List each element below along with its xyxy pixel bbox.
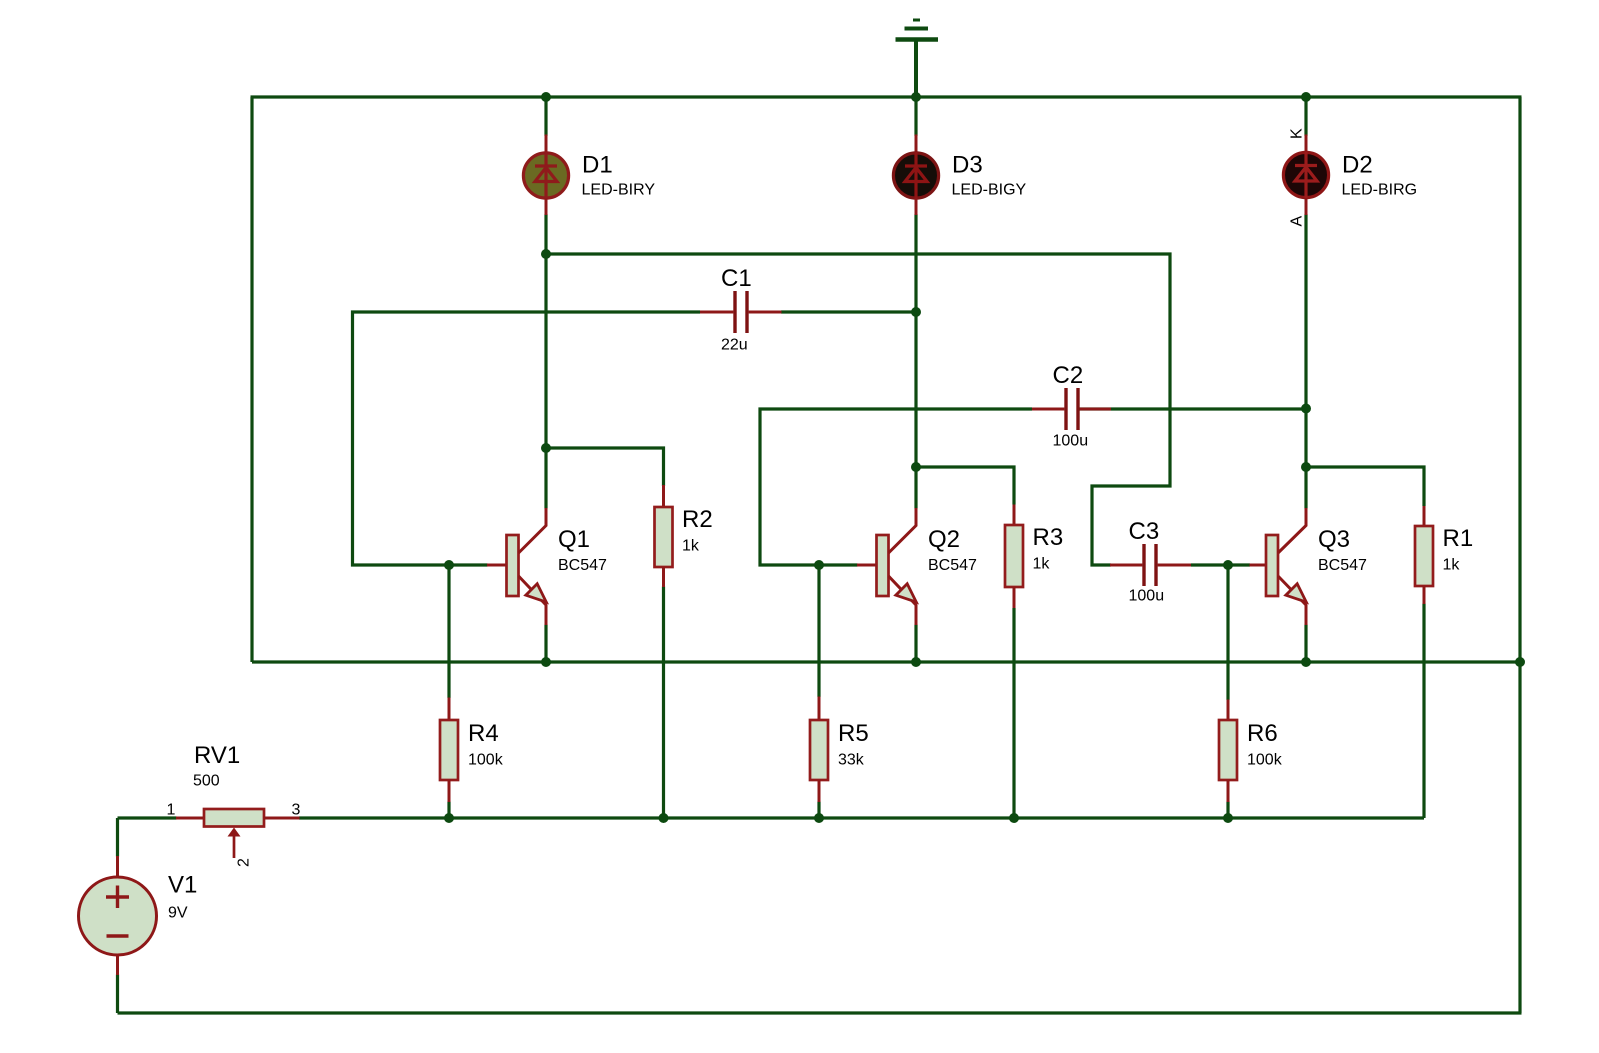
junction C2 right / Q3 collector column — [1301, 404, 1311, 414]
svg-text:K: K — [1289, 128, 1306, 139]
wire: Q3 emitter to rail — [1304, 625, 1307, 663]
svg-text:1k: 1k — [1033, 556, 1051, 573]
resistor R3 1k — [1005, 505, 1063, 609]
wire: D1 cathode down to Q1 collector — [544, 214, 547, 448]
wire: Q1 collector to R2 top — [546, 448, 664, 486]
svg-text:22u: 22u — [721, 337, 748, 354]
junction Q1 base / R4 — [444, 560, 454, 570]
svg-text:LED-BIRG: LED-BIRG — [1342, 182, 1418, 199]
wire: supply row from RV1 wiper side — [118, 816, 177, 819]
wire: C3 right to Q3 base — [1191, 563, 1250, 566]
potentiometer RV1 500 — [167, 742, 301, 867]
svg-text:Q1: Q1 — [558, 526, 590, 553]
junction Q1 emitter rail — [541, 657, 551, 667]
svg-text:R5: R5 — [838, 720, 869, 747]
resistor R1 1k — [1415, 506, 1473, 604]
junction Q3 emitter rail — [1301, 657, 1311, 667]
wire: R5 bottom to supply row — [817, 802, 820, 819]
svg-text:C3: C3 — [1129, 518, 1160, 545]
wire: C2 right to Q3 collector column — [1080, 407, 1307, 410]
svg-text:1k: 1k — [1443, 557, 1461, 574]
svg-text:9V: 9V — [168, 905, 188, 922]
svg-text:100k: 100k — [468, 752, 504, 769]
transistor Q3 — [1250, 508, 1368, 625]
junction R3 supply row — [1009, 813, 1019, 823]
svg-text:R4: R4 — [468, 720, 499, 747]
wire: right vertical from top rail down to battery return — [1518, 97, 1521, 1013]
wire: Q3 base junction down to R6 — [1226, 565, 1229, 700]
resistor R4 100k — [440, 698, 504, 803]
svg-text:R6: R6 — [1247, 720, 1278, 747]
svg-text:100u: 100u — [1053, 433, 1089, 450]
svg-text:R2: R2 — [682, 506, 713, 533]
svg-text:100k: 100k — [1247, 752, 1283, 769]
wire: Q3 collector stub — [1304, 467, 1307, 509]
svg-text:V1: V1 — [168, 872, 197, 899]
capacitor C2 100u — [1032, 362, 1111, 450]
svg-text:Q3: Q3 — [1318, 526, 1350, 553]
wire: Q1 base junction down to R4 — [447, 565, 450, 698]
svg-text:R3: R3 — [1033, 524, 1064, 551]
wire: R1 bottom down to supply row corner — [1422, 604, 1425, 819]
capacitor C1 22u — [700, 265, 782, 354]
svg-text:D2: D2 — [1342, 152, 1373, 179]
junction emitter rail / right vertical — [1515, 657, 1525, 667]
wire: D3 cathode down through C1 node to Q2 collector — [914, 214, 917, 467]
junction D1 top rail — [541, 92, 551, 102]
wire: R6 bottom to supply row — [1226, 802, 1229, 819]
svg-text:D3: D3 — [952, 152, 983, 179]
wire: emitter rail — [252, 660, 1520, 663]
junction R6 supply row — [1223, 813, 1233, 823]
junction Q3 base / C3 / R6 — [1223, 560, 1233, 570]
svg-text:C2: C2 — [1053, 362, 1084, 389]
wire: D3 anode to top rail — [914, 97, 917, 136]
junction Q1 collector / R2 — [541, 443, 551, 453]
svg-text:33k: 33k — [838, 752, 865, 769]
wire: battery minus down to bottom return — [116, 975, 119, 1014]
wire: supply row RV1 pin3 to R1 corner — [299, 816, 1424, 819]
wire: bottom battery return — [118, 1011, 1522, 1014]
wire: Q2 base junction down to R5 — [817, 565, 820, 697]
wire: C2 left to Q2 base — [760, 409, 1032, 565]
svg-text:BC547: BC547 — [558, 557, 607, 574]
junction R5 supply row — [814, 813, 824, 823]
svg-text:A: A — [1289, 216, 1306, 227]
wire: Q1 emitter to rail — [544, 625, 547, 663]
wire: D1 anode to top rail — [544, 97, 547, 136]
wire: C1 left to Q1 base — [353, 312, 701, 565]
wire: C1 right to Q2 collector column — [781, 310, 916, 313]
wire: R3 bottom to supply row — [1012, 608, 1015, 818]
junction Q3 collector / R1 — [1301, 462, 1311, 472]
wire: node Q1 collector to C3 branch (down, right, down to C3) — [546, 254, 1170, 565]
junction R4 supply row — [444, 813, 454, 823]
ground — [896, 20, 939, 97]
junction Q2 collector / R3 — [911, 462, 921, 472]
svg-text:BC547: BC547 — [1318, 557, 1367, 574]
wire: R4 bottom to supply row — [447, 802, 450, 819]
wire: Q3 collector to R1 top — [1306, 467, 1424, 506]
svg-text:RV1: RV1 — [194, 742, 240, 769]
svg-text:LED-BIRY: LED-BIRY — [582, 182, 656, 199]
svg-text:R1: R1 — [1443, 525, 1474, 552]
junction Q2 emitter rail — [911, 657, 921, 667]
svg-text:100u: 100u — [1129, 588, 1165, 605]
svg-text:500: 500 — [193, 773, 220, 790]
wire: Q1 collector stub — [544, 448, 547, 509]
svg-text:BC547: BC547 — [928, 557, 977, 574]
wire: top ground rail — [251, 95, 1522, 98]
resistor R2 1k — [655, 485, 713, 587]
wire: D2 cathode to top rail — [1304, 97, 1307, 136]
svg-text:3: 3 — [292, 802, 301, 819]
wire: D2 anode down through C2 node to Q3 collector — [1304, 214, 1307, 467]
resistor R5 33k — [810, 697, 869, 803]
capacitor C3 100u — [1110, 518, 1191, 605]
svg-text:Q2: Q2 — [928, 526, 960, 553]
wire: Q2 collector to R3 top — [916, 467, 1014, 505]
svg-text:1: 1 — [167, 802, 176, 819]
junction Q1 collector / C3 branch — [541, 249, 551, 259]
battery V1 9V — [79, 856, 198, 975]
svg-text:LED-BIGY: LED-BIGY — [952, 182, 1027, 199]
svg-text:1k: 1k — [682, 538, 700, 555]
LED D3 — [893, 135, 1026, 216]
LED D1 — [523, 135, 655, 216]
wire: left vertical from top rail to emitter rail — [250, 97, 253, 662]
svg-text:D1: D1 — [582, 152, 613, 179]
wire: Q2 collector stub — [914, 467, 917, 509]
wire: battery plus up to RV1 row — [116, 818, 119, 857]
LED D2 — [1283, 128, 1417, 227]
transistor Q1 — [487, 508, 607, 625]
wire: R2 bottom to supply row — [662, 587, 665, 819]
junction Q2 base / R5 — [814, 560, 824, 570]
junction C1 right / Q2 collector column — [911, 307, 921, 317]
junction R2 supply row — [659, 813, 669, 823]
junction D2 top rail — [1301, 92, 1311, 102]
wire: Q2 emitter to rail — [914, 625, 917, 663]
svg-text:2: 2 — [235, 858, 252, 867]
transistor Q2 — [857, 508, 977, 625]
resistor R6 100k — [1219, 700, 1283, 803]
junction D3 top rail — [911, 92, 921, 102]
svg-text:C1: C1 — [721, 265, 752, 292]
